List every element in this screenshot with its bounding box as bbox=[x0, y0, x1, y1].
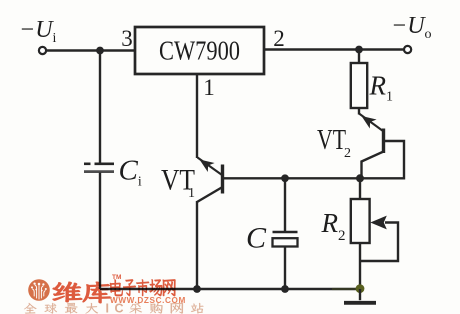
watermark brand text bbox=[53, 282, 111, 303]
wire pin 2 to output bbox=[264, 48, 404, 50]
svg-text:Ci: Ci bbox=[119, 155, 142, 190]
wire C upper lead bbox=[284, 178, 286, 231]
wire left vertical lower bbox=[99, 173, 101, 290]
wire C lower lead bbox=[284, 247, 286, 290]
label CW7900 bbox=[159, 36, 240, 66]
input terminal -Ui bbox=[39, 47, 46, 54]
node feedback junction bbox=[356, 174, 364, 182]
wire VT2 collector down bbox=[360, 161, 362, 179]
wire pin 1 bbox=[196, 74, 198, 158]
capacitor C bbox=[273, 232, 298, 247]
pin 2 bbox=[273, 26, 285, 51]
label Ci bbox=[119, 155, 142, 190]
svg-text:VT: VT bbox=[317, 125, 346, 156]
svg-text:TM: TM bbox=[112, 274, 121, 281]
resistor R2 potentiometer bbox=[351, 199, 398, 261]
pin 1 bbox=[203, 75, 215, 100]
svg-text:1: 1 bbox=[188, 186, 195, 201]
label C bbox=[246, 222, 267, 255]
svg-text:1: 1 bbox=[203, 75, 215, 100]
node capacitor C tap bbox=[281, 174, 289, 182]
svg-text:R2: R2 bbox=[321, 208, 346, 244]
label R1 bbox=[369, 71, 394, 105]
svg-text:C: C bbox=[246, 222, 267, 255]
wire VT1 collector down bbox=[196, 201, 198, 289]
node VT1 collector bottom bbox=[193, 285, 201, 293]
label VT2 bbox=[317, 125, 351, 161]
transistor VT2 bbox=[359, 114, 384, 162]
label R2 bbox=[321, 208, 346, 244]
capacitor Ci bbox=[84, 164, 114, 172]
node C bottom bbox=[281, 285, 289, 293]
node input junction bbox=[96, 47, 104, 55]
wire VT1 base to node bbox=[224, 177, 360, 179]
node output junction bbox=[355, 46, 363, 54]
svg-text:C: C bbox=[115, 302, 124, 314]
watermark logo bbox=[28, 279, 50, 301]
wire bottom rail bbox=[100, 288, 360, 290]
label -Uo bbox=[391, 13, 432, 42]
svg-text:I: I bbox=[106, 302, 109, 314]
output terminal -Uo bbox=[404, 46, 411, 53]
label -Ui bbox=[19, 17, 57, 46]
ground bbox=[344, 289, 376, 303]
node ground junction bbox=[356, 284, 365, 293]
watermark url bbox=[110, 296, 186, 305]
svg-text:R1: R1 bbox=[369, 71, 394, 105]
watermark slogan bbox=[24, 302, 204, 314]
wire VT2 base loop bbox=[362, 141, 404, 178]
svg-text:2: 2 bbox=[273, 26, 285, 51]
wire R2 bottom lead bbox=[359, 243, 361, 289]
svg-text:−Ui: −Ui bbox=[19, 17, 57, 46]
wire tinted segment near ground bbox=[332, 288, 357, 290]
pin 3 bbox=[121, 26, 133, 51]
watermark TM bbox=[112, 274, 121, 281]
watermark site name bbox=[110, 279, 175, 296]
wire node to R2 bbox=[359, 178, 361, 199]
resistor R1 bbox=[351, 50, 367, 115]
svg-text:3: 3 bbox=[121, 26, 133, 51]
transistor VT1 bbox=[197, 158, 223, 203]
svg-text:CW7900: CW7900 bbox=[159, 36, 240, 66]
svg-text:−Uo: −Uo bbox=[391, 13, 432, 42]
label VT1 bbox=[161, 164, 195, 202]
regulator U1 CW7900 box bbox=[135, 27, 264, 74]
svg-text:2: 2 bbox=[344, 146, 351, 161]
wire left vertical upper bbox=[99, 51, 101, 163]
wire input rail to pin 3 bbox=[46, 49, 135, 51]
